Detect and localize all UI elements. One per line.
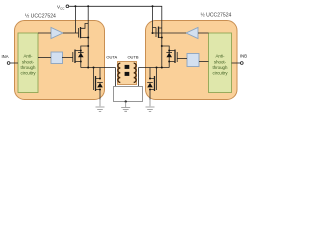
wire green box to triangle (right) — [198, 32, 209, 34]
wire Q6 source to ground — [149, 90, 151, 100]
transistor Q2 channel — [74, 50, 76, 64]
wire INB to green box — [232, 62, 241, 64]
transistor Q5 NMOS pull-up (right): gate bar — [176, 52, 178, 62]
transistor Q4 PMOS pull-up (right): gate bar — [153, 28, 157, 38]
node Q5 drain — [168, 50, 170, 52]
node Q6 source — [149, 89, 151, 91]
svg-text:through: through — [21, 65, 36, 70]
node Q6 drain — [149, 78, 151, 80]
svg-text:Anti-: Anti- — [23, 54, 33, 59]
wire square buffer to Q5 gate — [177, 58, 187, 60]
green box: anti-shoot-through circuitry (left) — [18, 33, 38, 93]
transistor Q3 NMOS pull-down (left): gate line — [93, 68, 95, 91]
wire triangle output to PMOS gate — [63, 32, 79, 34]
node Q2 drain — [80, 50, 82, 52]
wire INA to green box — [10, 62, 18, 64]
transistor Q6 channel — [154, 76, 156, 91]
svg-text:through: through — [213, 65, 228, 70]
node load ground — [125, 100, 127, 102]
polarity dot lower — [125, 72, 130, 76]
node rail-gate — [93, 67, 95, 69]
transistor Q1 channel — [80, 27, 82, 38]
node VCC-A — [74, 5, 76, 7]
polarity dot upper — [125, 65, 130, 69]
node Q2 source — [80, 61, 82, 63]
transistor Q6 stubs — [150, 79, 155, 90]
transistor Q1 stubs — [81, 24, 89, 38]
wire square buffer to Q2 gate — [62, 57, 73, 59]
transistor Q3 stubs — [96, 79, 101, 90]
coupled inductor box — [118, 62, 137, 85]
node right PMOS gate tee — [152, 32, 154, 34]
wire bridge to Q5 (right) — [162, 46, 169, 51]
wire VCC rail — [69, 6, 162, 67]
VCC terminal — [66, 5, 69, 8]
node Q5 source — [168, 61, 170, 63]
INA terminal — [7, 62, 10, 65]
diode D2 body (left mid) — [80, 51, 82, 62]
node Q1 drain — [87, 37, 89, 39]
inductor LB winding — [134, 63, 136, 82]
wire VCC drop A (left) — [74, 6, 76, 33]
wire VCC drop B (left) — [87, 6, 89, 67]
wire Q2 source to out rail — [80, 62, 82, 68]
wire green box to square buffer — [38, 57, 51, 59]
svg-text:½ UCC27524: ½ UCC27524 — [201, 12, 232, 19]
svg-text:INB: INB — [240, 54, 247, 59]
transistor Q1 PMOS pull-up (left): gate bar — [78, 28, 80, 38]
svg-text:INA: INA — [2, 54, 9, 59]
buffer square U2 bottom driver — [187, 54, 199, 67]
node rail-gate (right) — [156, 67, 158, 69]
ground (right chip) — [146, 107, 155, 112]
green box: anti-shoot-through circuitry (right) — [209, 33, 232, 93]
svg-text:OUTB: OUTB — [127, 55, 138, 60]
node left mid — [87, 45, 89, 47]
wire OUTA drop — [115, 68, 117, 87]
transistor Q4 stubs — [159, 28, 162, 38]
svg-text:½ UCC27524: ½ UCC27524 — [25, 13, 56, 20]
transistor Q6 NMOS pull-down (right): gate line — [156, 68, 158, 91]
node Q3 source — [99, 89, 101, 91]
svg-text:circuitry: circuitry — [20, 71, 36, 76]
node Q4 drain — [161, 37, 163, 39]
wire OUTA rail — [81, 67, 116, 69]
wire bridge to Q2 (left) — [81, 46, 88, 51]
wire load to ground — [125, 102, 127, 108]
wire triangle output to PMOS gate (right) — [153, 32, 187, 34]
transistor Q2 NMOS pull-up (left): gate bar — [72, 52, 74, 62]
IC U1 body (left half UCC27524) — [15, 21, 105, 100]
buffer triangle U1 top driver — [51, 28, 63, 39]
svg-text:shoot-: shoot- — [22, 59, 35, 64]
wire Q6 drain riser — [149, 68, 151, 79]
wire green box to triangle — [38, 32, 51, 34]
transistor Q5 stubs — [169, 51, 175, 62]
wire Q3 drain riser — [99, 68, 101, 79]
transistor Q3 channel — [95, 76, 97, 91]
diode D6 body (right bottom) — [147, 83, 153, 88]
buffer square U1 bottom driver — [51, 52, 63, 64]
node rail-B — [87, 67, 89, 69]
wire Q3 source to ground — [99, 90, 101, 100]
svg-text:OUTA: OUTA — [106, 55, 117, 60]
INB terminal — [240, 62, 243, 65]
transistor Q4 channel — [158, 27, 160, 39]
ground (left chip) — [96, 107, 105, 112]
IC U2 body (right half UCC27524) — [146, 21, 238, 100]
load box — [114, 87, 143, 102]
diode D5 body (right mid) — [168, 51, 170, 62]
svg-text:VCC: VCC — [57, 4, 65, 10]
svg-text:Anti-: Anti- — [215, 54, 225, 59]
svg-text:circuitry: circuitry — [212, 71, 228, 76]
wire green box to square buffer (right) — [199, 61, 209, 63]
diode D3 body (left bottom) — [97, 83, 103, 88]
node Q3 drain — [99, 78, 101, 80]
node right mid — [161, 45, 163, 47]
wire OUTB drop — [138, 68, 140, 87]
node VCC-B — [87, 5, 89, 7]
transistor Q2 stubs — [75, 51, 81, 62]
wire OUTB rail — [139, 67, 170, 69]
ground (load) — [121, 108, 130, 112]
svg-text:shoot-: shoot- — [214, 59, 227, 64]
wire VCC drop A (right) — [152, 6, 154, 33]
transistor Q5 channel — [174, 50, 176, 64]
inductor LA winding — [118, 63, 120, 82]
node VCC-C — [152, 5, 154, 7]
buffer triangle U2 top driver — [186, 28, 198, 39]
node rail-B (right) — [161, 67, 163, 69]
wire Q5 source to out rail — [168, 62, 170, 68]
